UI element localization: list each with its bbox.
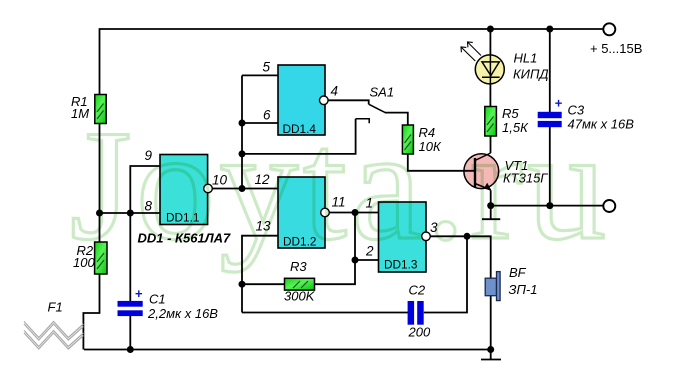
wire: ground bottom rail bbox=[84, 349, 491, 351]
wire: +V top rail bbox=[100, 28, 603, 30]
DD1.4 output bubble bbox=[320, 96, 329, 105]
svg-text:HL1: HL1 bbox=[514, 51, 538, 66]
wire: HL1 to R5 bbox=[489, 83, 491, 107]
wire: DD1.4 output to SA1 bbox=[325, 100, 369, 104]
resistor R4 bbox=[402, 125, 413, 154]
svg-text:КИПД: КИПД bbox=[513, 67, 549, 82]
junction: left rail / pin 8 bbox=[96, 210, 103, 217]
sensor F1 zigzag bbox=[24, 322, 83, 350]
wire: R5 to VT1 collector bbox=[490, 136, 492, 153]
capacitor C3 plates bbox=[538, 112, 562, 127]
switch SA1 fixed contact bbox=[356, 119, 370, 123]
wire: output rail to minus terminal bbox=[491, 205, 603, 207]
junction: DD1.1 output / pin 12 node bbox=[239, 185, 246, 192]
DD1.3 output bubble bbox=[422, 232, 431, 241]
wire: pin 5 input bbox=[242, 74, 278, 76]
wire: DD1.4 tied input vertical bbox=[241, 75, 243, 188]
wire: DD1.1 output to DD1.2 pin 12 bbox=[208, 188, 278, 190]
junction: VT1 emitter / output rail bbox=[487, 202, 494, 209]
transistor VT1 body bbox=[464, 154, 499, 189]
resistor R2 bbox=[95, 242, 107, 274]
junction: R3 left on pin 13 node bbox=[239, 281, 246, 288]
svg-text:200: 200 bbox=[408, 325, 431, 340]
switch SA1 lever bbox=[369, 104, 386, 112]
junction: SA1 return on input node bbox=[239, 150, 246, 157]
wire: pin 9 tie to pin 8 node bbox=[130, 166, 160, 213]
wire: C3 bottom lead bbox=[549, 127, 551, 206]
gate DD1.4 body bbox=[278, 65, 325, 136]
wire: left rail upper (top corner to R1) bbox=[99, 28, 101, 94]
wire: pin 6 input bbox=[242, 122, 278, 124]
wire: pin 13 to timing node bbox=[242, 236, 278, 313]
svg-text:2,2мк x 16В: 2,2мк x 16В bbox=[147, 306, 218, 321]
junction: C3 bottom on output rail bbox=[546, 202, 553, 209]
capacitor C2 plates bbox=[408, 301, 424, 325]
DD1.1 output bubble bbox=[204, 184, 213, 193]
svg-text:F1: F1 bbox=[48, 300, 63, 315]
transistor VT1 internals bbox=[475, 153, 492, 191]
wire: R3 right lead to DD1.2 output bbox=[315, 213, 356, 285]
junction: HL1 branch on +V rail bbox=[487, 26, 494, 33]
DD1.2 output bubble bbox=[321, 208, 330, 217]
wire: HL1 top lead bbox=[489, 29, 491, 55]
resistor R1 bbox=[95, 95, 106, 124]
wire: R3 left lead bbox=[242, 283, 285, 285]
LED HL1 body bbox=[475, 55, 504, 84]
wire: left rail R1 to pin8 node bbox=[99, 124, 101, 243]
gate DD1.2 body bbox=[278, 177, 325, 249]
svg-text:+ 5...15В: + 5...15В bbox=[590, 41, 642, 56]
wire: VT1 emitter lead bbox=[490, 191, 492, 206]
junction: BF bottom on ground rail bbox=[487, 346, 494, 353]
junction: C2 right / DD1.3 output bbox=[464, 233, 471, 240]
junction: pin 2 tie bbox=[352, 257, 359, 264]
LED HL1 symbol internals bbox=[482, 55, 500, 84]
ground symbol at bottom rail bbox=[481, 350, 501, 360]
junction: C3 branch on +V rail bbox=[546, 26, 553, 33]
resistor R3 bbox=[285, 278, 315, 290]
svg-text:5: 5 bbox=[263, 60, 271, 75]
junction: C1 bottom on ground rail bbox=[127, 346, 134, 353]
wire: C3 top lead bbox=[549, 29, 551, 113]
svg-text:300K: 300K bbox=[284, 289, 316, 304]
junction: pin 6 tie bbox=[239, 120, 246, 127]
gate DD1.3 body bbox=[379, 202, 427, 272]
wire: C2 right lead to DD1.3 output bbox=[424, 236, 467, 312]
wire: pin 8 input wire bbox=[100, 212, 161, 214]
wire: pin 2 input bbox=[355, 259, 379, 261]
svg-text:C1: C1 bbox=[149, 292, 166, 307]
svg-text:ЗП-1: ЗП-1 bbox=[509, 282, 538, 297]
gate DD1.1 body bbox=[160, 155, 208, 225]
wire: SA1 return to input node bbox=[242, 119, 356, 154]
wire: left rail R2 to F1 jog bbox=[83, 274, 99, 350]
wire: DD1.2 output to DD1.3 pin 1 bbox=[325, 212, 379, 214]
wire: C1 top lead bbox=[129, 213, 131, 302]
capacitor C1 plates bbox=[118, 301, 143, 316]
junction: C1 top / pin 8-9 node bbox=[127, 210, 134, 217]
wire: R4 to VT1 base bbox=[408, 154, 475, 171]
ground symbol at VT1 emitter bbox=[482, 206, 500, 220]
LED HL1 emission arrows bbox=[461, 42, 481, 61]
terminal: output minus bbox=[603, 200, 615, 212]
terminal: +V bbox=[603, 23, 615, 35]
svg-text:C2: C2 bbox=[409, 283, 426, 298]
wire: C1 bottom lead bbox=[129, 316, 131, 350]
resistor R5 bbox=[485, 107, 497, 137]
buzzer BF symbol bbox=[485, 272, 500, 301]
junction: DD1.2 output / pin 1 bbox=[352, 209, 359, 216]
wire: SA1 to R4 bbox=[385, 113, 408, 125]
svg-text:4: 4 bbox=[331, 84, 339, 99]
wire: DD1.3 output to BF bbox=[426, 236, 491, 349]
wire: C2 left lead bbox=[242, 312, 408, 314]
svg-text:+: + bbox=[135, 286, 143, 301]
